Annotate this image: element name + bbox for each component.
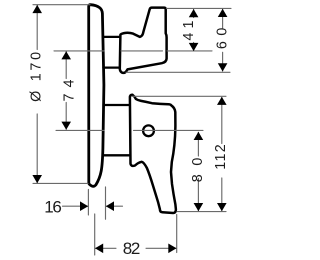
dim line D170 upper seg [36, 5, 38, 49]
arrow 112 up [217, 97, 227, 105]
diverter knob handle (side view) [120, 8, 167, 73]
arrow D170 down [32, 175, 42, 183]
dim line 80 upper seg [197, 132, 199, 156]
ext line knob bottom [126, 71, 230, 73]
arrow 41 up [189, 9, 199, 17]
arrow 82 right [168, 244, 176, 254]
ext line lever front 82 right [176, 215, 178, 253]
knob axis ext line mid [121, 50, 163, 52]
svg-text:82: 82 [123, 239, 141, 258]
arrow D170 up [32, 5, 42, 13]
dim line D170 lower seg [36, 114, 38, 183]
arrow 41 down [189, 43, 199, 51]
arrow 16 left [106, 201, 114, 211]
arrow 60 up [218, 9, 228, 17]
lever handle neck top edge [104, 104, 130, 106]
knob neck bottom edge [104, 66, 120, 68]
arrow 80 up [194, 132, 204, 140]
dim line 112 upper seg [221, 98, 223, 144]
screw hole circle [143, 125, 154, 136]
svg-text:Ø 170: Ø 170 [29, 52, 45, 102]
dim line 82 left seg [95, 247, 116, 249]
ext line lever top [132, 95, 226, 97]
dim line 41 lower seg [193, 43, 195, 51]
arrow 60 down [218, 63, 228, 71]
dim line 60 upper seg [222, 9, 224, 28]
dim line 112 lower seg [221, 178, 223, 211]
dim line 41 upper seg [193, 9, 195, 17]
arrow 80 down [194, 203, 204, 211]
ext line wall 16 left [87, 190, 89, 216]
ext line lever bottom [177, 211, 226, 213]
knob axis ext line right [167, 50, 212, 52]
dim line 80 lower seg [197, 179, 199, 211]
lever handle (side view, pointing down) [130, 95, 176, 213]
ext line plate front 16 right [105, 187, 107, 219]
ext line knob top [167, 7, 232, 9]
arrow 112 down [217, 203, 227, 211]
knob axis ext line left [54, 50, 104, 52]
tail line 16 right [106, 205, 122, 207]
svg-text:16: 16 [44, 198, 62, 217]
ext line plate top [33, 4, 90, 6]
arrow 74 down [61, 122, 71, 130]
dim line 60 lower seg [222, 52, 224, 71]
arrow 16 right [80, 201, 88, 211]
leader line 16 [63, 205, 88, 207]
dim line 74 upper seg [65, 52, 67, 79]
knob neck top edge [104, 36, 120, 38]
svg-text:112: 112 [213, 144, 229, 170]
dim line 82 right seg [146, 247, 176, 249]
escutcheon plate (side view) [89, 5, 104, 187]
dim line 74 lower seg [65, 103, 67, 130]
lever axis ext line left [56, 129, 104, 131]
arrow 82 left [95, 244, 103, 254]
lever handle neck bottom edge [104, 154, 130, 156]
ext line plate tip 82 left [94, 214, 96, 255]
ext line plate bottom [33, 182, 88, 184]
arrow 74 up [61, 51, 71, 59]
lever axis ext line right [134, 129, 204, 131]
